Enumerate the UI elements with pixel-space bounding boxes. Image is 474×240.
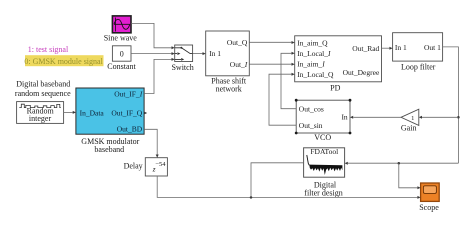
svg-text:filter design: filter design [304, 189, 342, 198]
svg-text:Out 1: Out 1 [424, 43, 441, 52]
block Loop filter [393, 33, 443, 72]
svg-text:Delay: Delay [124, 162, 143, 171]
svg-text:random sequence: random sequence [15, 89, 71, 98]
svg-text:FDATool: FDATool [310, 147, 338, 156]
svg-text:Out_Q: Out_Q [227, 38, 248, 47]
block Gain [401, 109, 419, 132]
svg-text:Out_IF_I: Out_IF_I [114, 90, 142, 99]
wire GMSK Out_BD to Delay [144, 129, 159, 157]
svg-text:baseband: baseband [94, 145, 124, 154]
svg-text:Loop filter: Loop filter [401, 63, 436, 72]
junction FDATool branch on scope wire [250, 196, 253, 199]
svg-text:PD: PD [330, 84, 340, 93]
svg-text:0: 0 [120, 50, 124, 59]
annotation text "Digital baseband random sequence" [15, 79, 71, 98]
svg-text:0: GMSK module signal: 0: GMSK module signal [24, 57, 103, 66]
annotation text "1: test signal" [28, 45, 69, 54]
wire Sine Wave to Switch in1 [131, 23, 175, 49]
svg-text:1: 1 [411, 115, 414, 122]
annotation highlight "0: GMSK module signal" [24, 55, 103, 66]
block Sine Wave [104, 16, 138, 43]
svg-text:In_Local_Q: In_Local_Q [297, 70, 334, 79]
svg-text:Gain: Gain [401, 123, 417, 132]
block Switch [171, 45, 193, 72]
svg-text:−54: −54 [155, 161, 166, 168]
wire Gain output to VCO In [350, 116, 401, 119]
block Digital filter design FDATool [304, 147, 345, 198]
wire VCO Out_sin to PD In_Local_Q [269, 73, 296, 126]
svg-text:In: In [341, 113, 347, 122]
block PD [295, 36, 382, 93]
svg-text:Out_BD: Out_BD [117, 125, 143, 134]
wire branch to Scope input 1 [399, 163, 421, 189]
svg-text:integer: integer [29, 114, 52, 123]
svg-text:Out_Rad: Out_Rad [352, 44, 379, 53]
svg-text:Out_IF_Q: Out_IF_Q [111, 109, 142, 118]
junction at scope branch [398, 162, 401, 165]
block GMSK modulator baseband [76, 88, 144, 154]
wire branch to Gain input [419, 116, 459, 119]
svg-text:Scope: Scope [419, 203, 439, 212]
svg-text:VCO: VCO [314, 133, 331, 142]
wire Delay to Scope input 2 [157, 176, 420, 199]
svg-text:Out_sin: Out_sin [299, 121, 323, 130]
wire Random integer to GMSK In_Data [64, 111, 76, 114]
block Constant value 0 [107, 46, 136, 71]
wire Switch to Phase shift network In 1 [193, 52, 206, 55]
wire down to FDATool input [345, 162, 459, 165]
svg-text:Out_Degree: Out_Degree [343, 68, 380, 77]
wire VCO Out_cos to PD In_Local_I [281, 52, 296, 109]
wire Constant to Switch in2 [131, 52, 175, 55]
wire Loop filter Out 1 down right side [443, 47, 459, 163]
wire Phase Out_Q to PD In_aim_Q [249, 41, 294, 44]
svg-text:Switch: Switch [171, 63, 193, 72]
svg-text:In 1: In 1 [395, 43, 407, 52]
svg-text:Constant: Constant [107, 62, 136, 71]
svg-text:In_Data: In_Data [80, 109, 105, 118]
svg-text:Digital baseband: Digital baseband [16, 79, 70, 88]
svg-text:In_aim_I: In_aim_I [297, 60, 325, 69]
wire PD Out_Rad to Loop filter In 1 [382, 47, 393, 50]
svg-text:Out_cos: Out_cos [299, 104, 324, 113]
svg-text:Out_I: Out_I [230, 60, 248, 69]
svg-text:Sine wave: Sine wave [104, 33, 138, 42]
svg-text:In_aim_Q: In_aim_Q [297, 38, 328, 47]
block Delay z^-54 [124, 158, 168, 176]
block Random integer [17, 102, 64, 124]
svg-text:network: network [216, 84, 242, 93]
block VCO [295, 99, 352, 142]
junction at gain branch [457, 116, 460, 119]
wire GMSK Out_IF_I to Switch in3 [144, 58, 175, 94]
svg-text:1: test signal: 1: test signal [28, 45, 69, 54]
wire Phase Out_I to PD In_aim_I [249, 63, 294, 66]
block Phase shift network [206, 31, 250, 93]
block Scope [419, 183, 439, 212]
stub arrow GMSK Out_IF_Q [144, 112, 147, 115]
svg-text:In_Local_I: In_Local_I [297, 49, 331, 58]
svg-text:In 1: In 1 [209, 49, 221, 58]
wire FDATool left to junction [251, 163, 304, 198]
